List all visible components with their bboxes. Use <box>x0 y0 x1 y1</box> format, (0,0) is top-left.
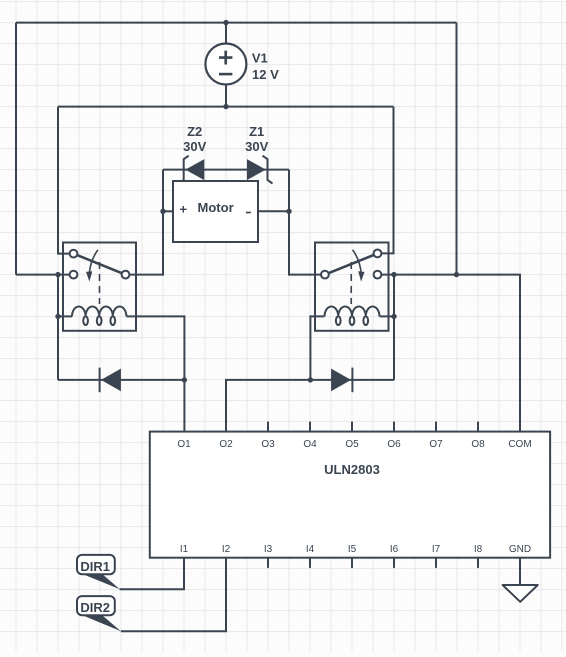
relay K1 NO contact <box>122 271 130 279</box>
IC U1 ULN2803 box <box>150 432 550 558</box>
junction COM branch <box>454 272 459 277</box>
diode D2 (right, points right) <box>331 368 352 393</box>
wire left rail down <box>15 23 17 275</box>
svg-text:GND: GND <box>509 544 531 555</box>
net flag DIR1 pointer <box>80 573 120 589</box>
motor + terminal <box>180 206 187 213</box>
relay K2 NC contact <box>374 250 382 258</box>
svg-text:Motor: Motor <box>198 200 234 215</box>
wire zener row <box>163 169 289 171</box>
pin stub O6 <box>393 422 395 432</box>
net flag DIR2 <box>77 596 115 615</box>
pin stub O4 <box>309 422 311 432</box>
net flag DIR2 pointer <box>80 614 121 631</box>
svg-text:I6: I6 <box>390 544 399 555</box>
wire V1 bottom lead <box>225 84 227 106</box>
pin stub I3 <box>267 558 269 568</box>
svg-text:O7: O7 <box>429 439 443 450</box>
wire I2 to DIR2 <box>121 558 226 632</box>
voltage source V1 <box>205 44 246 85</box>
svg-text:I8: I8 <box>474 544 483 555</box>
pin stub I5 <box>351 558 353 568</box>
wire left diode row <box>58 379 184 381</box>
svg-text:O3: O3 <box>261 439 275 450</box>
zener diode Z2 <box>179 156 205 184</box>
relay K2 NO contact <box>374 271 382 279</box>
junction motor right <box>286 209 291 214</box>
wire second rail right drop to K2 NC <box>381 107 393 254</box>
wire GND lead <box>519 558 521 585</box>
wire top rail right drop <box>456 23 458 275</box>
svg-text:I1: I1 <box>180 544 189 555</box>
svg-text:I4: I4 <box>306 544 315 555</box>
junction K1 common rail <box>55 272 60 277</box>
relay K1 actuation arrow <box>89 250 98 273</box>
svg-text:O8: O8 <box>471 439 485 450</box>
diode D1 (left, points left) <box>100 368 121 393</box>
svg-text:I5: I5 <box>348 544 357 555</box>
svg-text:O2: O2 <box>219 439 233 450</box>
net flag DIR1 <box>77 555 115 574</box>
relay K2 box <box>315 243 389 331</box>
pin stub I4 <box>309 558 311 568</box>
junction K2 NO row <box>391 272 396 277</box>
wire motor left lead <box>163 210 173 212</box>
ground symbol <box>503 585 538 602</box>
wire K1 common column down <box>57 275 59 380</box>
wire K2 coil left lead down <box>310 316 324 380</box>
relay K1 coupling dashed line <box>99 262 101 304</box>
pin stub I6 <box>393 558 395 568</box>
relay K1 box <box>63 243 136 331</box>
svg-text:12 V: 12 V <box>252 67 279 82</box>
wire top rail <box>16 22 457 24</box>
zener diode Z1 <box>247 156 273 184</box>
svg-text:V1: V1 <box>252 50 268 65</box>
wire motor right lead <box>258 210 289 212</box>
relay K1 switch arm <box>77 255 122 273</box>
wire left zener drop to motor and K1 NO <box>129 170 163 275</box>
wire K2 column down <box>393 275 395 380</box>
pin stub O7 <box>435 422 437 432</box>
junction K1 coil left <box>55 314 60 319</box>
svg-text:Z2: Z2 <box>187 124 202 139</box>
relay K2 actuation arrow <box>353 250 362 273</box>
svg-text:I2: I2 <box>222 544 231 555</box>
relay K2 common contact <box>321 271 329 279</box>
pin stub I7 <box>435 558 437 568</box>
svg-text:30V: 30V <box>245 139 268 154</box>
svg-text:ULN2803: ULN2803 <box>324 462 380 477</box>
svg-text:DIR1: DIR1 <box>80 559 110 574</box>
wire left rail to relay K1 common <box>16 274 70 276</box>
pin stub O8 <box>477 422 479 432</box>
relay K1 coil <box>72 307 126 326</box>
junction right diode row <box>308 377 313 382</box>
svg-text:I3: I3 <box>264 544 273 555</box>
motor - terminal <box>246 212 251 214</box>
junction motor left <box>160 209 165 214</box>
motor M1 box <box>173 181 258 242</box>
svg-text:O4: O4 <box>303 439 317 450</box>
wire K2 row to COM <box>381 275 520 432</box>
pin stub O3 <box>267 422 269 432</box>
relay K1 NC contact <box>70 250 78 258</box>
junction V1 bottom <box>223 104 228 109</box>
relay K2 coil <box>325 307 380 326</box>
junction V1 top <box>223 20 228 25</box>
svg-text:O6: O6 <box>387 439 401 450</box>
relay K1 common contact <box>70 271 78 279</box>
pin stub I8 <box>477 558 479 568</box>
relay K2 switch arm <box>329 255 374 273</box>
pin stub O5 <box>351 422 353 432</box>
wire K2 coil right lead <box>380 315 394 317</box>
wire K1 coil left lead <box>58 315 72 317</box>
wire second rail left drop to K1 NC <box>58 107 70 254</box>
svg-text:COM: COM <box>508 439 531 450</box>
junction K2 coil right <box>391 314 396 319</box>
svg-text:DIR2: DIR2 <box>80 600 110 615</box>
svg-text:O1: O1 <box>177 439 191 450</box>
svg-text:30V: 30V <box>183 139 206 154</box>
junction left diode row O1 <box>182 377 187 382</box>
svg-text:Z1: Z1 <box>249 124 264 139</box>
relay K2 coupling dashed line <box>350 262 352 304</box>
svg-text:I7: I7 <box>432 544 441 555</box>
wire K1 coil right lead to O1 column <box>126 316 184 431</box>
wire right diode row to O2 column <box>226 380 394 432</box>
wire second rail <box>58 106 394 108</box>
wire I1 to DIR1 <box>120 558 184 590</box>
svg-text:O5: O5 <box>345 439 359 450</box>
wire V1 top lead <box>225 23 227 44</box>
wire right zener drop to K2 common <box>289 170 321 275</box>
